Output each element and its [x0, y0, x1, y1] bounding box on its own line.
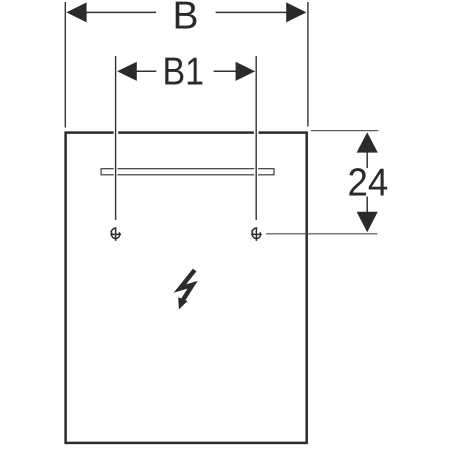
left screw fixing symbol [110, 228, 121, 241]
lightning bolt (electrical connection) [178, 270, 195, 309]
24 bottom extension line [266, 233, 378, 235]
svg-text:24: 24 [348, 162, 389, 205]
gap in light strip at left B1 extension crossing [114, 167, 118, 176]
right screw fixing symbol [251, 228, 262, 241]
24 top extension line [311, 130, 378, 132]
B1 left extension line [115, 56, 117, 220]
B1 dimension line left segment [137, 70, 157, 72]
B1 right arrowhead [236, 62, 256, 81]
B left arrowhead [66, 2, 86, 22]
24 dimension line upper segment [366, 152, 368, 168]
gap in light strip at right B1 extension crossing [254, 167, 258, 176]
gap in top edge at right B1 extension crossing [254, 131, 259, 135]
svg-text:B1: B1 [163, 49, 204, 93]
light strip outline [101, 169, 274, 175]
svg-text:B: B [172, 0, 198, 38]
24 down arrowhead [357, 212, 378, 232]
24 dimension line lower segment [366, 197, 368, 213]
cabinet body rectangle [66, 133, 307, 443]
B dimension line left segment [86, 11, 156, 13]
B1 dimension line right segment [214, 70, 236, 72]
gap in top edge at left B1 extension crossing [114, 131, 119, 135]
B left extension line [64, 2, 66, 128]
B right arrowhead [286, 2, 306, 22]
B dimension line right segment [216, 11, 287, 13]
24 up arrowhead [357, 132, 378, 152]
B1 left arrowhead [117, 62, 137, 81]
B right extension line [307, 2, 309, 127]
B1 right extension line [255, 56, 257, 220]
